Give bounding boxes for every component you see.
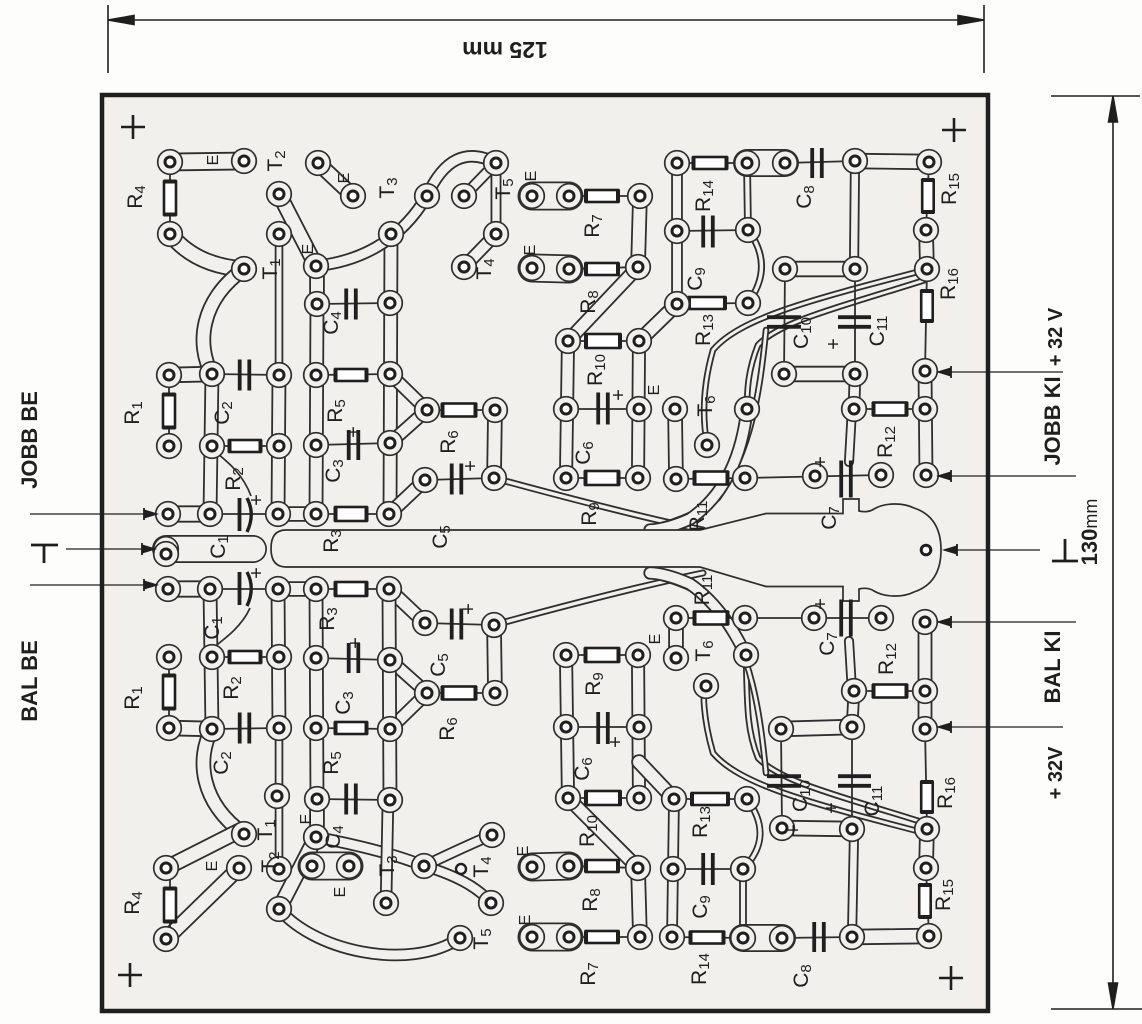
wire R7-R8 bal <box>638 868 640 937</box>
wire R6-C5 bal <box>494 625 495 693</box>
wire col R13 <box>671 163 683 304</box>
bus ground pad hole <box>921 545 931 555</box>
wire <box>781 729 782 828</box>
wire <box>316 374 390 375</box>
pad <box>773 151 798 176</box>
registration cross <box>118 963 142 987</box>
pad <box>660 925 685 950</box>
wire C8-C11 col <box>854 161 855 269</box>
resistor R14 <box>694 157 727 170</box>
wire <box>566 726 639 728</box>
capacitor C7 <box>841 461 851 498</box>
capacitor C8 bal <box>814 922 824 952</box>
svg-text:E: E <box>204 861 221 872</box>
capacitor C4 <box>346 289 356 320</box>
pad <box>626 466 651 491</box>
resistor R1 bal <box>163 676 176 709</box>
capacitor C11 bal <box>838 776 871 786</box>
svg-text:+: + <box>605 736 627 748</box>
wire long wide bal <box>650 573 746 655</box>
pad <box>304 254 329 279</box>
capacitor C9 <box>703 216 713 248</box>
pad <box>914 856 939 881</box>
pad <box>733 606 758 631</box>
wire C10 row2 bal <box>781 727 852 729</box>
wire <box>676 478 745 479</box>
capacitor C2 bal <box>240 713 250 744</box>
pad <box>917 150 942 175</box>
wire T2-E <box>318 163 353 196</box>
capacitor C1 bal <box>209 572 251 651</box>
wire <box>677 230 748 231</box>
wire <box>854 269 856 374</box>
pad <box>305 787 330 812</box>
pad <box>840 925 865 950</box>
leader gnd in <box>66 543 155 555</box>
pad <box>482 466 507 491</box>
resistor R4 bal <box>164 889 177 922</box>
pad <box>452 255 477 280</box>
svg-text:BAL BE: BAL BE <box>17 640 42 722</box>
wire R3-C5 bal <box>389 589 425 623</box>
resistor R16 <box>921 291 933 321</box>
pad <box>200 434 225 459</box>
wire <box>745 475 881 478</box>
pad <box>267 363 292 388</box>
pad <box>556 786 581 811</box>
resistor R6 <box>443 403 476 417</box>
wire arc T3 <box>316 196 427 266</box>
registration cross <box>121 115 145 139</box>
wire <box>169 162 171 234</box>
wire <box>784 269 785 374</box>
pad <box>378 717 403 742</box>
wire R7-R8 <box>638 196 640 267</box>
wire C11-R12 bal <box>852 691 854 727</box>
pad <box>198 502 223 527</box>
svg-text:+: + <box>458 603 480 615</box>
wire R6-C5 <box>494 410 495 478</box>
pad <box>480 823 505 848</box>
pad <box>154 537 179 562</box>
pad <box>840 817 865 842</box>
wire col317a bal <box>309 799 325 836</box>
resistor R9 bal <box>586 648 619 663</box>
pad <box>232 822 257 847</box>
wire R4b <box>170 234 244 269</box>
wire <box>316 443 390 445</box>
wire in-row2 bal <box>278 581 316 597</box>
wire <box>210 513 278 515</box>
pad <box>773 257 798 282</box>
registration cross <box>939 966 963 990</box>
pad <box>377 577 402 602</box>
wire <box>566 477 638 479</box>
resistor R2 <box>230 440 261 453</box>
pad <box>413 611 438 636</box>
pad <box>374 891 399 916</box>
wire <box>566 654 638 656</box>
resistor R1 <box>163 395 176 428</box>
pad <box>869 463 894 488</box>
wire R4-T1 bal <box>166 831 239 868</box>
wire col317a <box>309 267 325 304</box>
wire col390 <box>390 234 391 514</box>
resistor R16 bal <box>921 782 933 812</box>
wire <box>926 162 929 230</box>
pad <box>626 643 651 668</box>
wire col R14 <box>747 163 748 230</box>
pad <box>803 464 828 489</box>
pad <box>412 854 437 879</box>
wire colA <box>566 341 568 478</box>
pad <box>378 291 403 316</box>
wire <box>425 478 494 480</box>
wire col279 bal <box>278 589 279 728</box>
resistor R6 bal <box>443 686 476 700</box>
wire <box>317 303 390 304</box>
wire col317b <box>316 304 317 514</box>
pad <box>306 151 331 176</box>
pad <box>661 857 686 882</box>
pad <box>484 222 509 247</box>
leader JOBB KI <box>938 470 1076 482</box>
wire <box>569 936 640 938</box>
capacitor C9 bal <box>703 853 713 885</box>
svg-text:+: + <box>783 824 805 836</box>
leader gnd out <box>944 544 1040 556</box>
pad <box>556 329 581 354</box>
wire Y1 bal <box>390 693 427 729</box>
pad <box>265 784 290 809</box>
small via hole <box>456 864 466 874</box>
resistor R2 bal <box>230 651 261 664</box>
pad <box>378 362 403 387</box>
wire <box>210 588 278 590</box>
pad <box>913 397 938 422</box>
svg-text:E: E <box>298 814 315 825</box>
pad <box>663 397 688 422</box>
pad <box>554 397 579 422</box>
wire <box>674 798 747 800</box>
pad <box>158 150 183 175</box>
capacitor C5 <box>452 464 462 495</box>
wire T3 col bal <box>386 800 388 903</box>
wire C8-C11 col bal <box>852 834 854 937</box>
wire <box>427 409 495 411</box>
pad <box>627 329 652 354</box>
svg-text:125 mm: 125 mm <box>462 37 548 63</box>
wire out col <box>925 371 926 475</box>
svg-text:+: + <box>460 460 482 472</box>
resistor R8 <box>586 263 618 276</box>
wire <box>851 727 853 829</box>
pad <box>304 502 329 527</box>
wire T2b-E bal <box>279 837 316 909</box>
wire E oval1 bal <box>532 923 569 952</box>
wire E oval bal <box>312 852 349 881</box>
resistor R4 <box>164 182 177 215</box>
pad <box>915 257 940 282</box>
wire C5 long bal <box>494 573 703 625</box>
wire <box>169 869 171 941</box>
pad <box>378 788 403 813</box>
svg-text:E: E <box>647 634 664 645</box>
wire C9 arc <box>748 230 762 303</box>
wire colB <box>638 341 639 478</box>
pad <box>415 184 440 209</box>
pad <box>304 577 329 602</box>
wire C10 row <box>785 261 855 277</box>
resistor R7 <box>586 190 618 203</box>
pad <box>267 434 292 459</box>
svg-text:E: E <box>336 173 353 184</box>
wire colB bal <box>638 655 639 798</box>
wire T1 col <box>275 234 284 374</box>
pad <box>304 433 329 458</box>
pad <box>200 645 225 670</box>
wire long wide <box>650 409 747 530</box>
pad <box>267 857 292 882</box>
resistor R5 bal <box>336 722 367 735</box>
wire long2 <box>747 280 925 409</box>
pad <box>913 359 938 384</box>
pad <box>232 257 257 282</box>
ground symbol left <box>31 545 58 563</box>
capacitor C6 <box>598 393 608 425</box>
pad <box>734 643 759 668</box>
wire <box>425 623 494 625</box>
wire in-row <box>168 505 210 522</box>
pad <box>557 854 582 879</box>
capacitor C3 <box>349 430 359 460</box>
capacitor C8 <box>812 148 822 178</box>
wire R3-C5 <box>389 480 425 514</box>
pad <box>627 786 652 811</box>
pad <box>664 606 689 631</box>
pad <box>627 397 652 422</box>
wire col279 <box>278 375 279 514</box>
wire col212 <box>210 374 212 514</box>
pad <box>913 610 938 635</box>
pad <box>735 787 760 812</box>
wire <box>925 729 927 829</box>
svg-text:E: E <box>523 171 540 182</box>
resistor R11 <box>695 471 728 485</box>
wire R15-R16 <box>926 230 927 269</box>
pad <box>200 362 225 387</box>
resistor R13 bal <box>692 793 728 806</box>
wire E oval1 <box>532 182 569 211</box>
pad <box>626 856 651 881</box>
wire to C2 col <box>203 269 244 374</box>
wire arc T2-T5 bal <box>275 904 460 955</box>
wire T2b-E <box>279 194 316 266</box>
svg-text:+: + <box>343 426 365 438</box>
pad <box>735 151 760 176</box>
ground bus trace <box>271 499 941 601</box>
resistor R10 bal <box>586 791 620 806</box>
pad <box>665 151 690 176</box>
pad <box>735 397 760 422</box>
wire <box>316 513 389 515</box>
pad <box>378 648 403 673</box>
wire <box>676 617 745 619</box>
pad <box>554 466 579 491</box>
ground symbol right <box>1052 539 1078 561</box>
pad <box>802 606 827 631</box>
pad <box>304 716 329 741</box>
svg-text:+: + <box>246 494 268 506</box>
pad <box>379 222 404 247</box>
pad <box>304 646 329 671</box>
pad <box>266 577 291 602</box>
pad <box>662 787 687 812</box>
pad <box>154 927 179 952</box>
wire Y1 <box>390 374 427 410</box>
wire R13-R10 bal <box>639 762 674 799</box>
resistor R12 <box>874 402 907 416</box>
wire C11-R12 <box>854 374 855 409</box>
wire <box>854 690 925 692</box>
wire <box>316 658 390 660</box>
pad <box>157 434 182 459</box>
resistor R10 <box>586 334 620 349</box>
wire R12-C7 bal <box>849 641 852 691</box>
pad <box>198 577 223 602</box>
wire <box>427 692 495 694</box>
pad <box>628 184 653 209</box>
wire <box>212 728 279 729</box>
pad <box>341 184 366 209</box>
resistor R8 bal <box>586 860 618 873</box>
leader +32V bal <box>938 721 1063 733</box>
pad <box>482 613 507 638</box>
pad <box>156 577 181 602</box>
pad <box>337 854 362 879</box>
wire long1 bal <box>704 686 925 833</box>
ground stub obround <box>166 535 253 563</box>
svg-text:E: E <box>205 155 222 166</box>
resistor R11 bal <box>695 611 728 625</box>
wire col212 bal <box>210 589 212 729</box>
pad <box>267 182 292 207</box>
pad <box>914 218 939 243</box>
pad <box>520 855 545 880</box>
resistor R9 <box>586 471 619 486</box>
svg-text:+: + <box>810 456 832 468</box>
wire <box>745 617 881 619</box>
pad <box>557 925 582 950</box>
pad <box>267 645 292 670</box>
wire arc T3 bal <box>316 837 424 866</box>
pad <box>479 891 504 916</box>
pad <box>232 149 257 174</box>
registration cross <box>942 118 966 142</box>
pad <box>842 679 867 704</box>
wire col390 bal <box>389 589 390 800</box>
pad <box>520 256 545 281</box>
wire R4-E <box>170 161 244 162</box>
pad <box>267 716 292 741</box>
pad <box>913 717 938 742</box>
wire C10 row bal <box>782 828 852 829</box>
wire long3 <box>662 330 766 525</box>
pad <box>378 431 403 456</box>
PCB board outline <box>102 95 988 1011</box>
pad <box>554 715 579 740</box>
wire Y2 <box>390 410 427 443</box>
svg-text:+: + <box>821 802 843 814</box>
pad <box>483 681 508 706</box>
wire long1 <box>704 270 925 445</box>
wire C8-R15 <box>855 161 929 162</box>
pad <box>913 679 938 704</box>
capacitor C6 bal <box>598 712 608 744</box>
wire long3 bal <box>662 578 766 773</box>
pad <box>157 363 182 388</box>
wire <box>168 375 170 446</box>
resistor R14 bal <box>691 931 724 944</box>
pad <box>157 645 182 670</box>
wire long2 bal <box>746 655 925 823</box>
wire out col bal <box>918 622 933 729</box>
pad <box>917 924 942 949</box>
wire E oval2 bal <box>532 866 569 867</box>
pad <box>843 149 868 174</box>
pad <box>915 817 940 842</box>
pad <box>843 257 868 282</box>
capacitor C7 bal <box>841 600 851 637</box>
pad <box>266 502 291 527</box>
pad <box>300 854 325 879</box>
pad <box>731 857 756 882</box>
pad <box>200 717 225 742</box>
resistor R15 <box>922 180 934 212</box>
wire Y2 bal <box>390 660 427 693</box>
wire <box>212 374 279 375</box>
wire <box>212 656 279 658</box>
capacitor C1 <box>212 449 251 532</box>
wire arc T3-T5 <box>427 156 496 196</box>
wire <box>569 195 640 197</box>
capacitor C4 bal <box>346 784 356 815</box>
svg-text:E: E <box>300 244 317 255</box>
wire <box>317 799 390 800</box>
pad <box>736 291 761 316</box>
svg-text:+: + <box>345 637 367 649</box>
pad <box>158 222 183 247</box>
resistor R5 <box>336 369 367 382</box>
wire <box>568 797 639 799</box>
svg-text:+ 32V: + 32V <box>1045 746 1067 799</box>
svg-text:+: + <box>608 389 630 401</box>
wire R1-C2 bal <box>169 728 212 729</box>
pad <box>413 468 438 493</box>
pad <box>267 897 292 922</box>
pad <box>304 825 329 850</box>
svg-text:E: E <box>646 385 663 396</box>
capacitor C10 bal <box>767 776 801 786</box>
wire R13-R10 <box>639 304 677 341</box>
svg-text:+: + <box>823 338 845 350</box>
pad <box>731 926 756 951</box>
leader +32V jobb <box>938 366 1063 378</box>
pad <box>842 397 867 422</box>
wire T3b <box>464 163 496 196</box>
pad <box>665 219 690 244</box>
resistor R7 bal <box>586 931 618 944</box>
